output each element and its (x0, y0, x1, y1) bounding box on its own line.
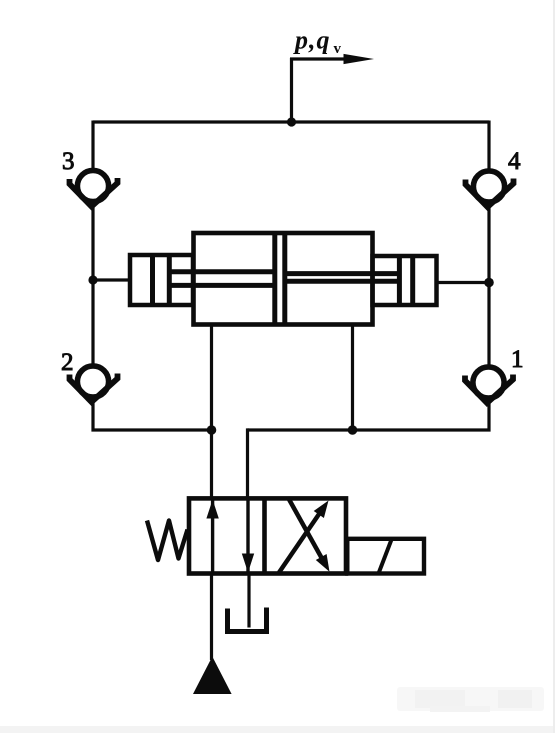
valve crossed arrow A (279, 509, 323, 573)
solenoid box (347, 539, 424, 574)
right end box (373, 256, 437, 305)
wire right pilot from cylinder (351, 323, 354, 430)
wire cylinder left port (93, 278, 131, 281)
check valve 1 (465, 367, 513, 403)
junction pq on top bus (287, 117, 296, 126)
svg-text:4: 4 (508, 148, 521, 175)
right box bar 1 (397, 256, 402, 305)
check valve 4 (466, 171, 514, 207)
check valve 2 (70, 366, 118, 402)
rod left bottom line (169, 283, 275, 288)
left box bar 2 (167, 255, 172, 305)
junction left port (88, 275, 97, 284)
valve divider (262, 498, 267, 573)
right edge gray line (553, 0, 555, 733)
valve T line down arrow (246, 498, 249, 573)
solenoid diagonal (379, 540, 392, 574)
rod left top line (169, 269, 275, 274)
svg-text:p,q: p,q (293, 26, 331, 55)
cylinder main body (194, 233, 373, 325)
arrowhead pq (344, 54, 375, 64)
wire tank branch corner down (246, 428, 249, 499)
right box bar 2 (410, 256, 415, 305)
directional valve outline (189, 498, 346, 573)
spring W (147, 521, 188, 561)
rod right bottom line (285, 279, 400, 284)
wire pq vertical (290, 58, 293, 122)
wire cylinder right port (436, 281, 489, 284)
wire left pilot from cylinder (210, 323, 213, 499)
wire left bus upper (91, 121, 94, 171)
label p,qv (293, 26, 342, 58)
bottom gray bar (0, 726, 555, 733)
svg-text:2: 2 (61, 349, 74, 376)
piston bar right (282, 233, 287, 325)
wire valve P down to source (210, 574, 213, 661)
svg-text:1: 1 (511, 346, 524, 373)
valve P line up arrow (211, 498, 214, 573)
check valve 3 (70, 170, 118, 206)
tank symbol (228, 608, 267, 632)
junction bottom-right pilot (348, 425, 358, 435)
wire right bus upper (487, 121, 490, 172)
valve crossed arrow B (288, 498, 325, 565)
pressure source triangle (193, 657, 232, 695)
left box bar 1 (150, 255, 155, 305)
rod right top line (285, 271, 400, 276)
wire right bus lower to bottom-right bus (248, 401, 490, 430)
svg-text:v: v (334, 41, 342, 57)
wire top bus (93, 120, 489, 123)
wire right bus middle (487, 205, 490, 369)
piston bar left (272, 233, 277, 325)
junction right port (484, 278, 494, 288)
wire valve T down to tank (247, 574, 250, 628)
wire pq arrow line (290, 57, 346, 60)
wire left bus lower to bottom-left bus (93, 400, 213, 430)
svg-text:3: 3 (62, 148, 75, 175)
watermark (397, 687, 544, 712)
flow divider cylinder: left end box (130, 255, 193, 305)
wire left bus middle (91, 204, 94, 367)
junction bottom-left (207, 425, 217, 435)
